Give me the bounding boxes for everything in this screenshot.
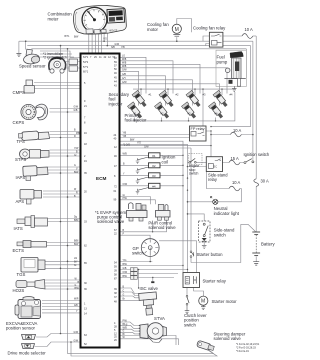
svg-text:G/B: G/B: [122, 74, 126, 76]
wire steering feeds: [121, 336, 179, 346]
svg-text:FP relay: FP relay: [191, 127, 205, 131]
wire meter drops to ECM: [89, 33, 102, 53]
immobilizer ignition switch: [49, 57, 78, 73]
wire FP relay out: [206, 131, 211, 157]
wire meter drop to L1: [103, 33, 105, 41]
svg-text:solenoid valve: solenoid valve: [214, 336, 242, 341]
svg-text:#1: #1: [152, 154, 156, 158]
wire gp ground stub: [152, 278, 154, 282]
wire ignition feed line: [121, 145, 212, 147]
meter connectors: [86, 29, 93, 34]
svg-text:30 A: 30 A: [261, 179, 269, 184]
cooling fan relay K1: [209, 32, 223, 47]
svg-text:Gr: Gr: [74, 154, 77, 157]
sensor CMPS: [24, 80, 35, 93]
svg-text:M: M: [175, 27, 179, 33]
svg-text:64*1: 64*1: [83, 56, 89, 59]
wire isc feeds: [121, 288, 140, 300]
wire bus right: [67, 49, 69, 354]
wire FP feed from rail: [211, 126, 251, 128]
svg-text:Starter relay: Starter relay: [203, 279, 227, 284]
svg-text:G/B: G/B: [74, 110, 78, 112]
svg-text:ISC valve: ISC valve: [140, 286, 159, 291]
svg-text:ECM: ECM: [96, 176, 107, 181]
svg-text:TGS: TGS: [17, 272, 26, 277]
svg-text:N/B: N/B: [111, 47, 115, 49]
ECM pin numbers top: [83, 56, 116, 59]
fuse F1 10A top: [242, 34, 253, 39]
fuel pump P1: [224, 52, 245, 92]
sensor IAPS: [23, 166, 48, 181]
injectors secondary #1-#4: [132, 90, 148, 108]
wire ho2s pins: [45, 280, 80, 289]
wire cmps pins: [34, 83, 80, 89]
svg-text:15 A: 15 A: [231, 156, 239, 161]
wire fan motor feed: [177, 19, 192, 33]
svg-text:*2 ignition switch: *2 ignition switch: [43, 56, 67, 60]
EVAP solenoid V1: [127, 203, 148, 221]
wire injector supply YB drop: [245, 49, 247, 78]
svg-text:IATS: IATS: [14, 226, 23, 231]
wire FP relay pump feed: [202, 89, 204, 126]
connector C1 inline: [131, 268, 138, 280]
wire speed sensor drop: [25, 41, 27, 49]
ground G2 side stand: [202, 245, 207, 248]
drive mode selector A: [22, 335, 36, 340]
svg-text:Y/G: Y/G: [103, 39, 107, 41]
svg-text:G: G: [123, 331, 125, 333]
wire colour labels left of ECM: [65, 36, 81, 343]
svg-text:G/Y: G/Y: [122, 78, 126, 80]
wire pair sol feeds: [121, 221, 167, 239]
drive mode selector B: [22, 344, 35, 349]
svg-text:coil: coil: [162, 160, 168, 165]
wire ckps pins: [50, 109, 80, 113]
wire coil feeds: [121, 155, 149, 186]
ISC valve V3: [139, 292, 158, 316]
sensor STPS: [20, 149, 50, 159]
wire ground drop left: [18, 41, 20, 53]
meter needle: [87, 10, 94, 20]
clutch lever switch S6: [185, 295, 190, 313]
neutral indicator lamp L1: [210, 197, 218, 205]
PAIR solenoid V2: [156, 205, 171, 221]
svg-text:10 A: 10 A: [232, 180, 240, 185]
GP switch S4: [141, 239, 159, 257]
wire bottom line 2: [71, 342, 217, 356]
svg-text:IAPS: IAPS: [16, 175, 26, 180]
svg-text:M: M: [201, 299, 205, 305]
side stand switch S3: [199, 221, 211, 242]
svg-text:B/Br: B/Br: [74, 219, 79, 222]
STVA M3: [139, 323, 167, 343]
wire side stand sw ground: [203, 242, 205, 245]
svg-text:B/Y: B/Y: [74, 262, 78, 264]
svg-text:Battery: Battery: [261, 242, 275, 247]
svg-text:#4: #4: [152, 184, 156, 188]
injector secondary #1: [132, 90, 148, 108]
svg-text:switch: switch: [132, 251, 145, 256]
wire supply bus 2: [121, 144, 188, 272]
wire fan motor return: [176, 37, 178, 41]
sensor ECTS: [17, 241, 47, 248]
svg-text:G: G: [74, 165, 76, 167]
wire gp switch drop: [149, 257, 151, 262]
svg-text:Br: Br: [123, 298, 126, 301]
ignition coil T1: [136, 153, 160, 164]
svg-text:W/B: W/B: [123, 154, 128, 156]
ignition coil T2: [136, 163, 160, 174]
wire gp right run: [159, 241, 196, 273]
wire starter loop: [191, 224, 241, 262]
svg-text:60*1: 60*1: [83, 71, 89, 74]
wire lamp feed: [188, 201, 213, 203]
wire FP relay coil feeds: [121, 135, 190, 138]
wire neutral 10A line: [206, 172, 241, 202]
wire tps pins: [50, 132, 80, 138]
svg-text:B/Lg: B/Lg: [123, 324, 128, 326]
svg-text:#2: #2: [152, 164, 156, 168]
wire injector common drops: [141, 89, 222, 95]
wire stva feeds: [121, 322, 139, 334]
wire pri injector feeds: [121, 71, 220, 105]
svg-text:relay: relay: [208, 177, 218, 182]
svg-text:Cooling fan relay: Cooling fan relay: [193, 26, 226, 31]
svg-text:W/B: W/B: [122, 66, 127, 68]
svg-text:W/B: W/B: [122, 63, 127, 65]
wire fuse to right rail: [253, 35, 256, 37]
svg-text:position sensor: position sensor: [6, 326, 35, 331]
svg-text:meter: meter: [48, 17, 60, 22]
wire side stand relay left pins: [188, 162, 207, 166]
wire iats pins: [48, 219, 80, 222]
starter relay K4: [183, 273, 200, 288]
svg-text:STPS: STPS: [15, 157, 26, 162]
svg-text:A/B: A/B: [74, 304, 78, 307]
wire battery minus: [255, 257, 257, 262]
svg-text:G: G: [123, 294, 125, 296]
injector secondary #4: [213, 90, 229, 108]
ECM pin numbers right column: [114, 57, 118, 342]
ground G3 battery: [253, 262, 259, 265]
svg-text:Y/B: Y/B: [123, 136, 127, 138]
svg-text:10 A: 10 A: [245, 27, 253, 32]
wire line L2: [27, 45, 250, 47]
svg-text:Starter button: Starter button: [197, 252, 224, 257]
wire sec injector feeds: [121, 57, 228, 93]
sensor EXCVA: [15, 297, 41, 319]
sensor TGS: [21, 258, 45, 273]
svg-text:57*1: 57*1: [83, 66, 89, 69]
sensor APS: [20, 190, 42, 205]
wire injector return bottom: [130, 92, 235, 121]
cooling fan motor M1: [172, 24, 181, 36]
wire drive mode A: [36, 334, 80, 338]
injector secondary #3: [186, 90, 202, 108]
injector primary #3: [182, 102, 198, 120]
svg-text:W/B: W/B: [122, 59, 127, 61]
svg-text:LG: LG: [122, 56, 125, 58]
sensor TPS: [18, 131, 49, 141]
wire coil rights: [160, 155, 183, 186]
wire rail below 30A to battery: [255, 187, 257, 232]
svg-text:indicator light: indicator light: [214, 211, 240, 216]
wire bottom line 1: [68, 346, 214, 354]
wire right rail: [255, 36, 257, 179]
meter LCD: [107, 9, 125, 23]
wire line L1: [19, 40, 253, 42]
fuse F4 30A vertical: [254, 179, 259, 187]
ignition coil T4: [136, 183, 160, 194]
svg-text:Starter motor: Starter motor: [212, 299, 238, 304]
steering damper solenoid V4: [196, 340, 214, 351]
engine stop switch S1: [188, 154, 203, 165]
injector primary #4: [209, 102, 225, 120]
svg-text:motor: motor: [147, 27, 159, 32]
svg-text:W/B: W/B: [123, 328, 128, 330]
wire supply bus 1: [121, 141, 184, 272]
wire pri injector bottoms: [135, 118, 216, 121]
ground G1 meter: [16, 53, 21, 56]
svg-text:CMPS: CMPS: [13, 90, 26, 95]
svg-text:HO2S: HO2S: [13, 288, 25, 293]
wire tgs pins: [45, 261, 80, 268]
ignition switch S2: [244, 159, 254, 164]
wire iaps pins: [48, 167, 80, 173]
svg-text:B/T1: B/T1: [65, 36, 71, 38]
wire clutch drop: [186, 288, 188, 295]
wire excva pins: [42, 301, 80, 313]
wire side stand 15A line: [223, 162, 245, 164]
svg-text:#3: #3: [152, 174, 156, 178]
wire relay left pins: [203, 36, 209, 46]
svg-text:Y/B: Y/B: [123, 133, 127, 135]
injector secondary #2: [159, 90, 175, 108]
fuel pump enclosure: [216, 50, 246, 86]
wire supply bus 3: [121, 147, 192, 149]
svg-text:Gr: Gr: [123, 194, 126, 197]
wire starter button run: [190, 148, 192, 263]
combination meter: [73, 4, 127, 35]
wire battery feed: [241, 224, 256, 231]
wire ects pins: [47, 243, 80, 246]
svg-text:switch: switch: [189, 172, 199, 176]
wire immobilizer pins: [78, 62, 80, 69]
terminal GP ground: [151, 281, 154, 283]
injector primary #2: [155, 102, 171, 120]
svg-text:G: G: [75, 285, 77, 287]
ECM pin numbers left column: [83, 61, 89, 346]
svg-text:solenoid valve: solenoid valve: [148, 225, 176, 230]
wire evap sol feeds: [121, 197, 156, 205]
svg-text:pump: pump: [217, 60, 228, 65]
svg-text:G/B: G/B: [123, 268, 127, 270]
wire colour labels right of ECM: [103, 39, 149, 340]
svg-text:P/B: P/B: [76, 133, 80, 135]
svg-text:injector: injector: [109, 101, 123, 106]
svg-text:TPS: TPS: [17, 139, 25, 144]
wire line L3: [31, 48, 246, 50]
svg-text:switch: switch: [214, 232, 227, 237]
injector primary #1: [128, 102, 144, 120]
sensor IATS: [17, 216, 48, 228]
svg-text:ECTS: ECTS: [13, 248, 25, 253]
svg-text:B/Bl: B/Bl: [74, 241, 79, 243]
wire gp group: [121, 262, 188, 278]
wire starter motor drop: [194, 288, 204, 297]
svg-text:CKPS: CKPS: [13, 120, 25, 125]
svg-text:solenoid valve: solenoid valve: [97, 219, 125, 224]
ignition coil T3: [136, 173, 160, 184]
wire drive mode B: [35, 342, 80, 347]
wire aps pins: [43, 191, 80, 197]
svg-text:*1 O/G: *1 O/G: [123, 144, 130, 146]
svg-text:Gr: Gr: [74, 264, 77, 267]
svg-text:Ignition switch: Ignition switch: [244, 152, 270, 157]
svg-text:Y/B: Y/B: [121, 47, 125, 49]
svg-text:Speed sensor: Speed sensor: [19, 64, 46, 69]
wire line L1 down right: [252, 41, 254, 160]
fuse F2 15A: [229, 160, 240, 165]
wire meter drop to L2: [106, 33, 108, 46]
svg-text:STVA: STVA: [154, 316, 165, 321]
starter motor M2: [199, 296, 208, 310]
svg-text:W/R: W/R: [74, 299, 79, 301]
svg-text:10 A: 10 A: [233, 128, 241, 133]
svg-text:Lbl: Lbl: [74, 258, 78, 260]
wire line L2 down right: [250, 46, 252, 127]
svg-text:APS: APS: [16, 199, 25, 204]
fuse F5 10A mid: [230, 132, 241, 137]
speed sensor: [23, 49, 40, 65]
sensor CKPS: [21, 104, 48, 120]
FP relay K2: [190, 126, 207, 141]
wire injector common: [133, 88, 236, 90]
wire stps pins: [50, 150, 80, 156]
svg-text:54*2: 54*2: [83, 61, 89, 64]
starter button S5: [190, 251, 194, 258]
svg-text:fuel injector: fuel injector: [125, 118, 148, 123]
svg-text:Y/G: Y/G: [137, 143, 141, 145]
wire side stand switch feed: [188, 214, 205, 221]
sensor HO2S: [16, 280, 45, 290]
svg-text:switch: switch: [184, 322, 197, 327]
fuse F3 10A lower: [229, 186, 240, 191]
battery BT1: [252, 232, 260, 256]
side stand relay K3: [206, 157, 222, 172]
wire mid 10A fuse line: [211, 134, 253, 136]
wire speed sensor pins: [40, 51, 80, 58]
svg-text:SC: SC: [214, 165, 218, 169]
svg-text:400-T2: 400-T2: [109, 28, 118, 32]
svg-text:Y/G: Y/G: [123, 260, 127, 262]
wire bus left: [60, 46, 62, 334]
svg-text:Drive mode selector: Drive mode selector: [8, 351, 47, 356]
wire isc link: [138, 270, 140, 289]
wire relay to fuse: [223, 35, 242, 37]
svg-text:Br: Br: [123, 333, 126, 336]
svg-text:*3 For E-19: *3 For E-19: [236, 350, 249, 353]
